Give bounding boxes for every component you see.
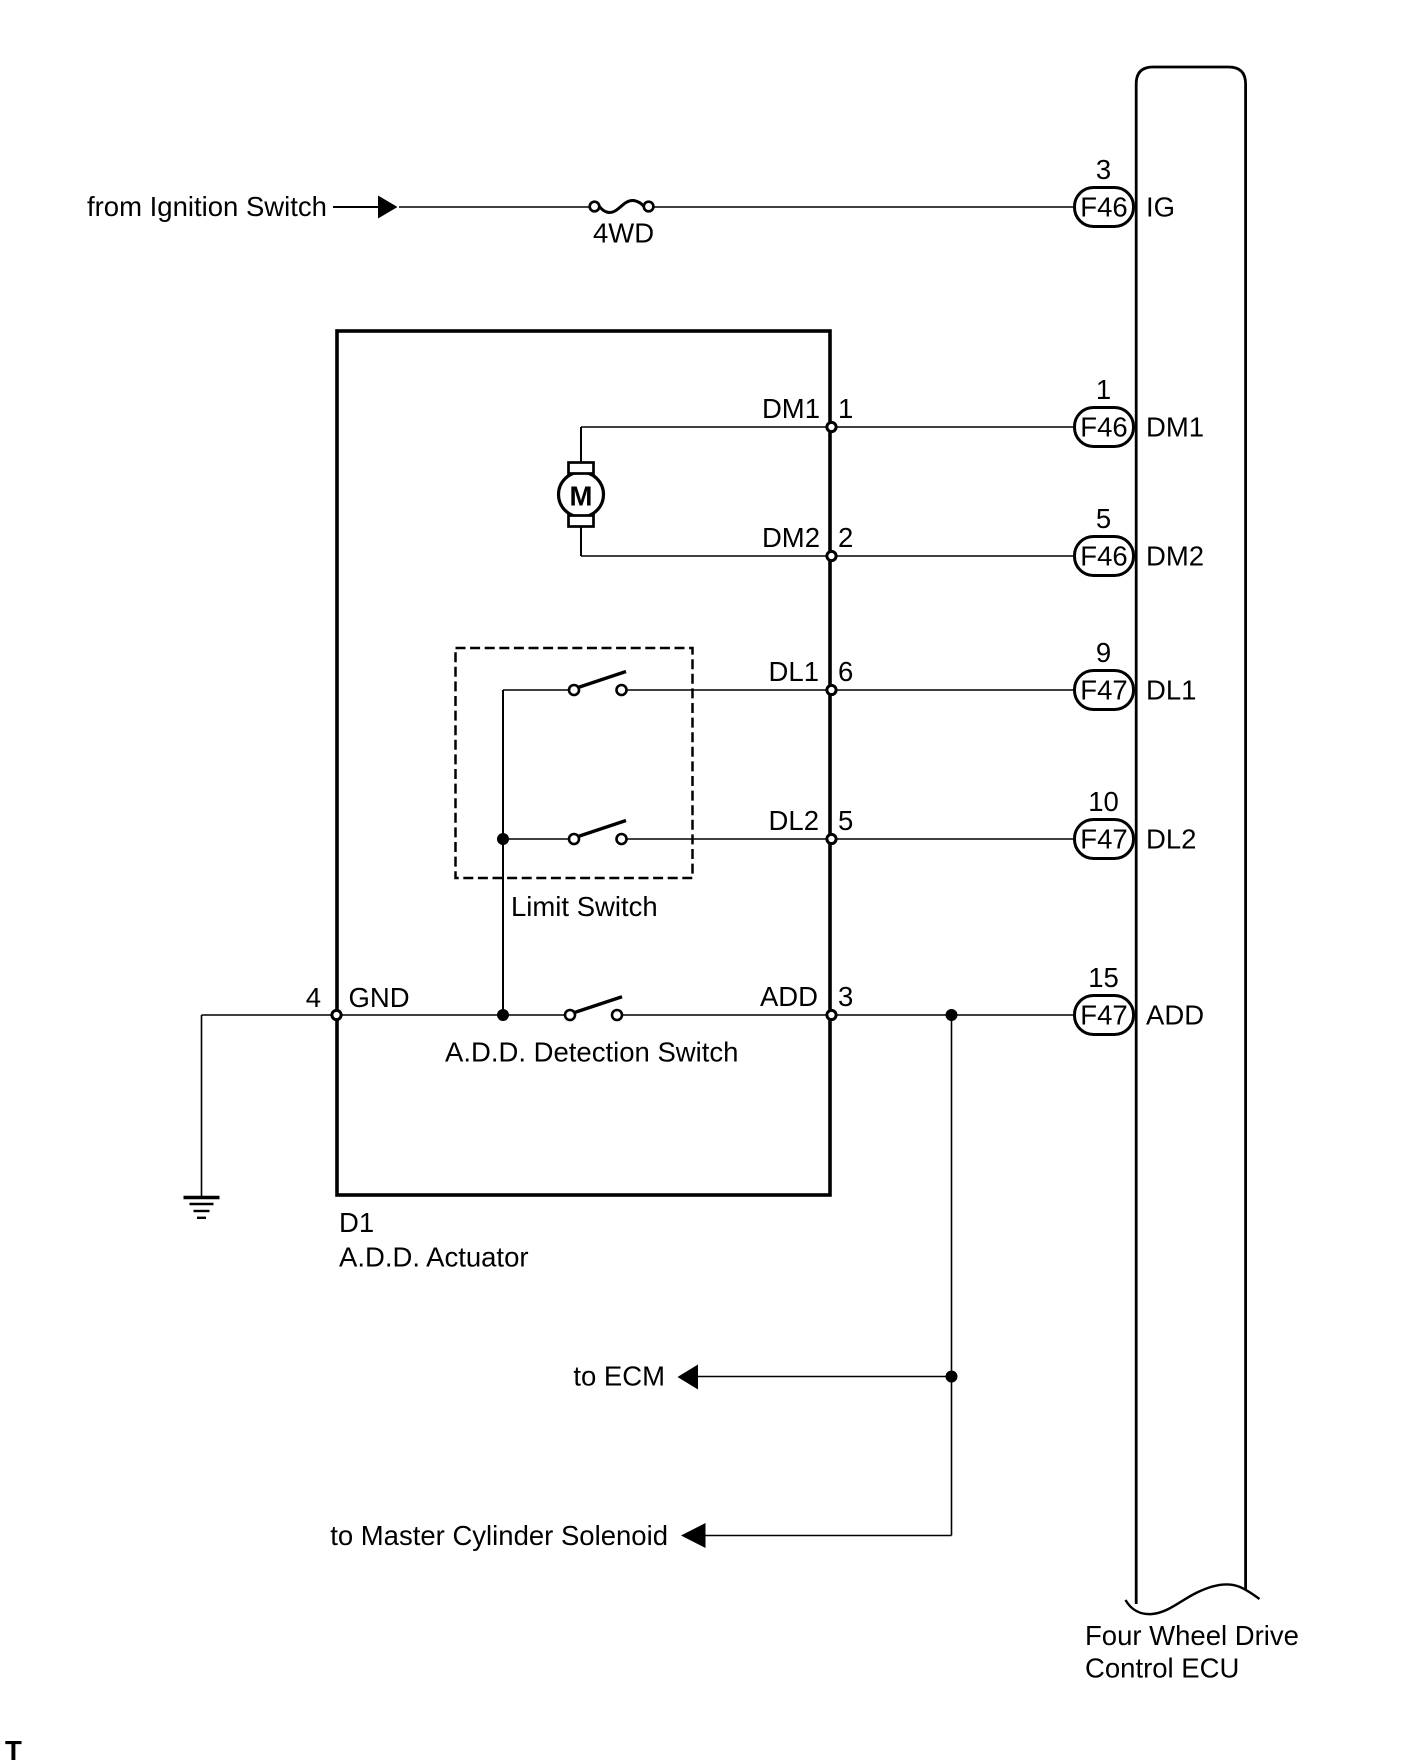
svg-text:DL2: DL2 [769,805,819,836]
svg-text:DL2: DL2 [1146,824,1196,855]
svg-text:to Master Cylinder Solenoid: to Master Cylinder Solenoid [330,1520,668,1551]
svg-text:Control ECU: Control ECU [1085,1653,1239,1684]
svg-text:9: 9 [1096,637,1111,668]
svg-text:F46: F46 [1080,541,1127,572]
svg-text:1: 1 [838,393,853,424]
svg-text:Limit Switch: Limit Switch [511,891,658,922]
svg-text:15: 15 [1088,962,1119,993]
svg-text:DM2: DM2 [762,522,820,553]
svg-text:DM1: DM1 [1146,412,1204,443]
svg-text:DM1: DM1 [762,393,820,424]
svg-text:5: 5 [838,805,853,836]
svg-text:6: 6 [838,656,853,687]
svg-text:1: 1 [1096,374,1111,405]
svg-text:D1: D1 [339,1207,374,1238]
svg-text:F47: F47 [1080,824,1127,855]
svg-text:F46: F46 [1080,192,1127,223]
svg-text:ADD: ADD [1146,1000,1204,1031]
svg-text:F47: F47 [1080,1000,1127,1031]
svg-text:GND: GND [349,982,410,1013]
svg-text:from Ignition Switch: from Ignition Switch [87,191,327,222]
svg-text:F46: F46 [1080,412,1127,443]
svg-text:3: 3 [1096,154,1111,185]
svg-text:3: 3 [838,981,853,1012]
svg-text:A.D.D. Actuator: A.D.D. Actuator [339,1242,529,1273]
svg-text:A.D.D. Detection Switch: A.D.D. Detection Switch [445,1037,738,1068]
svg-text:T: T [5,1735,22,1763]
svg-text:DL1: DL1 [1146,675,1196,706]
svg-text:DL1: DL1 [769,656,819,687]
svg-text:4WD: 4WD [593,218,654,249]
svg-text:F47: F47 [1080,675,1127,706]
svg-text:2: 2 [838,522,853,553]
svg-text:10: 10 [1088,786,1119,817]
svg-text:IG: IG [1146,192,1175,223]
svg-text:M: M [570,481,593,512]
svg-text:ADD: ADD [760,981,818,1012]
svg-text:4: 4 [306,982,321,1013]
svg-text:Four Wheel Drive: Four Wheel Drive [1085,1620,1299,1651]
svg-text:DM2: DM2 [1146,541,1204,572]
svg-text:to ECM: to ECM [573,1361,665,1392]
svg-text:5: 5 [1096,503,1111,534]
